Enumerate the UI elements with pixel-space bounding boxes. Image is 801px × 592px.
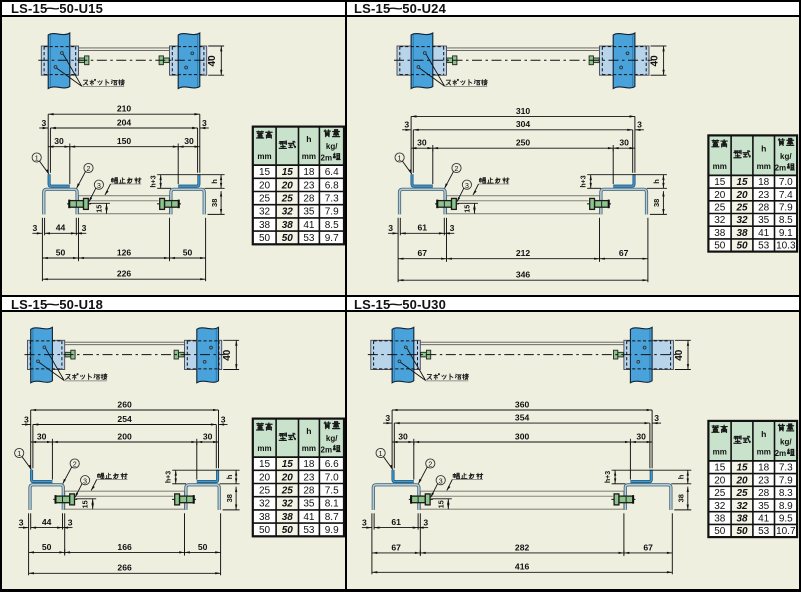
right channel bbox=[625, 485, 671, 510]
callout 1 bbox=[395, 153, 404, 162]
svg-text:7.9: 7.9 bbox=[325, 207, 339, 218]
svg-text:3: 3 bbox=[423, 517, 428, 527]
svg-text:2m: 2m bbox=[321, 153, 333, 162]
svg-text:8.5: 8.5 bbox=[779, 215, 793, 226]
svg-text:25: 25 bbox=[281, 194, 294, 205]
svg-text:9.5: 9.5 bbox=[779, 513, 793, 524]
habadome-zai label bbox=[98, 473, 104, 479]
right mounting plate bbox=[624, 340, 674, 369]
svg-text:2m: 2m bbox=[775, 449, 787, 458]
dim h and 38 bbox=[221, 469, 240, 471]
spot weld label leaders bbox=[63, 54, 81, 86]
right cover cap bbox=[630, 470, 651, 482]
plan-view width dim 40 bbox=[208, 45, 224, 47]
svg-text:h: h bbox=[652, 179, 661, 184]
svg-text:mm: mm bbox=[757, 448, 771, 457]
right support rail bbox=[613, 33, 635, 89]
callout 3 bbox=[436, 476, 445, 485]
dim 304 bbox=[412, 130, 414, 173]
svg-text:44: 44 bbox=[42, 517, 52, 527]
svg-text:15: 15 bbox=[436, 500, 445, 508]
callout 2 bbox=[84, 163, 93, 172]
dim 15 (brace leg) bbox=[458, 202, 479, 204]
spot weld label (supotto yousetsu) bbox=[446, 80, 451, 85]
habadome-zai label bbox=[479, 178, 485, 184]
svg-text:67: 67 bbox=[418, 248, 428, 258]
spot weld marks bbox=[404, 346, 407, 349]
svg-text:20: 20 bbox=[281, 180, 294, 191]
svg-text:3: 3 bbox=[97, 183, 101, 190]
svg-text:30: 30 bbox=[636, 431, 646, 441]
callout 1 bbox=[376, 448, 385, 457]
svg-text:3: 3 bbox=[654, 413, 659, 423]
svg-text:mm: mm bbox=[302, 444, 316, 453]
title bar row 1 bbox=[0, 2, 801, 16]
section bolts bbox=[435, 203, 459, 205]
dim 30 300 30 bbox=[413, 442, 415, 480]
svg-text:226: 226 bbox=[117, 269, 132, 279]
svg-text:38: 38 bbox=[736, 513, 748, 524]
svg-text:50: 50 bbox=[714, 241, 726, 252]
svg-text:32: 32 bbox=[259, 499, 271, 510]
svg-text:20: 20 bbox=[714, 475, 726, 486]
dim 254 bbox=[32, 425, 34, 469]
callout 3 bbox=[81, 476, 90, 485]
left mounting plate bbox=[371, 340, 421, 369]
svg-text:kg/: kg/ bbox=[780, 152, 792, 161]
svg-text:38: 38 bbox=[259, 512, 271, 523]
dim 260 overall bbox=[30, 410, 32, 468]
svg-text:38: 38 bbox=[736, 228, 748, 239]
svg-text:354: 354 bbox=[515, 413, 530, 423]
dim 15 (brace leg) bbox=[431, 498, 452, 500]
dim h and 38 bbox=[202, 174, 225, 176]
svg-text:28: 28 bbox=[758, 203, 770, 214]
svg-text:35: 35 bbox=[758, 501, 770, 512]
spot weld label leaders bbox=[407, 349, 425, 381]
svg-text:3: 3 bbox=[450, 223, 455, 233]
svg-text:28: 28 bbox=[758, 488, 770, 499]
svg-text:7.5: 7.5 bbox=[325, 486, 339, 497]
centre chain line bbox=[38, 59, 209, 61]
svg-text:50: 50 bbox=[56, 247, 66, 257]
dashed outline of plates bbox=[374, 340, 418, 342]
svg-text:254: 254 bbox=[117, 414, 132, 424]
callout 1 bbox=[15, 448, 24, 457]
bolt-on clamps (plan) bbox=[447, 58, 453, 63]
dim 346 overall width bbox=[398, 279, 648, 281]
svg-text:61: 61 bbox=[418, 223, 428, 233]
svg-text:200: 200 bbox=[117, 431, 132, 441]
svg-text:9.7: 9.7 bbox=[325, 233, 339, 244]
svg-text:40: 40 bbox=[649, 55, 660, 67]
svg-text:3: 3 bbox=[19, 517, 24, 527]
svg-text:38: 38 bbox=[714, 513, 726, 524]
spot weld label (supotto yousetsu) bbox=[83, 80, 88, 85]
spot weld label (supotto yousetsu) bbox=[427, 374, 432, 379]
svg-text:h+3: h+3 bbox=[605, 471, 612, 483]
svg-text:41: 41 bbox=[303, 512, 315, 523]
svg-text:30: 30 bbox=[203, 431, 213, 441]
svg-text:mm: mm bbox=[302, 152, 316, 161]
svg-text:mm: mm bbox=[713, 448, 727, 457]
svg-text:1: 1 bbox=[17, 451, 21, 458]
svg-text:40: 40 bbox=[674, 349, 685, 361]
brace angle (section) bbox=[65, 491, 185, 509]
svg-text:2: 2 bbox=[455, 166, 459, 173]
svg-text:15: 15 bbox=[736, 177, 748, 188]
svg-text:50: 50 bbox=[736, 526, 748, 537]
left channel (2) bbox=[400, 189, 446, 214]
svg-text:38: 38 bbox=[225, 494, 234, 502]
svg-text:346: 346 bbox=[516, 270, 531, 280]
dashed outline of plates bbox=[400, 46, 444, 48]
svg-text:282: 282 bbox=[515, 542, 530, 552]
left mounting plate bbox=[397, 46, 447, 75]
spot weld marks bbox=[423, 52, 426, 55]
svg-text:18: 18 bbox=[758, 463, 770, 474]
right channel bbox=[171, 189, 204, 214]
svg-text:3: 3 bbox=[83, 478, 87, 485]
svg-text:204: 204 bbox=[117, 117, 132, 127]
dim 67 212 67 bbox=[398, 258, 446, 260]
right support rail bbox=[197, 327, 219, 383]
svg-text:9.9: 9.9 bbox=[325, 525, 339, 536]
svg-text:mm: mm bbox=[257, 152, 271, 161]
svg-text:h: h bbox=[761, 429, 766, 439]
dim 50 126 50 bbox=[42, 257, 78, 259]
svg-text:25: 25 bbox=[259, 194, 271, 205]
frame lines bbox=[0, 0, 801, 2]
svg-text:50: 50 bbox=[736, 241, 748, 252]
bolt-on clamps (plan) bbox=[421, 352, 427, 357]
svg-text:360: 360 bbox=[515, 399, 530, 409]
svg-text:h: h bbox=[210, 179, 219, 184]
svg-text:3: 3 bbox=[42, 118, 47, 128]
callout 2 bbox=[70, 459, 79, 468]
svg-text:32: 32 bbox=[259, 207, 271, 218]
dim 210 overall bbox=[47, 114, 49, 173]
svg-text:3: 3 bbox=[404, 120, 409, 130]
extension lines bottom bbox=[371, 513, 373, 574]
svg-text:300: 300 bbox=[515, 431, 530, 441]
spec table bbox=[253, 127, 344, 166]
right support rail bbox=[178, 33, 200, 89]
dim h+3 bbox=[587, 174, 637, 176]
svg-text:38: 38 bbox=[259, 220, 271, 231]
callout 2 bbox=[452, 163, 461, 172]
svg-text:20: 20 bbox=[259, 180, 271, 191]
dim 360 overall bbox=[391, 410, 393, 468]
svg-text:61: 61 bbox=[391, 517, 401, 527]
svg-text:1: 1 bbox=[398, 156, 402, 163]
svg-text:mm: mm bbox=[713, 162, 727, 171]
svg-text:53: 53 bbox=[758, 241, 770, 252]
left mounting plate bbox=[28, 340, 65, 369]
svg-text:40: 40 bbox=[207, 55, 218, 67]
svg-text:166: 166 bbox=[117, 542, 132, 552]
svg-text:8.5: 8.5 bbox=[325, 220, 339, 231]
svg-text:15: 15 bbox=[463, 205, 472, 213]
svg-text:50: 50 bbox=[282, 525, 294, 536]
svg-text:30: 30 bbox=[417, 138, 427, 148]
extension lines bottom bbox=[28, 513, 30, 575]
svg-text:mm: mm bbox=[757, 162, 771, 171]
dim 226 overall width bbox=[42, 278, 205, 280]
svg-text:38: 38 bbox=[210, 199, 219, 207]
svg-text:67: 67 bbox=[619, 248, 629, 258]
svg-text:32: 32 bbox=[282, 499, 294, 510]
svg-text:50: 50 bbox=[259, 233, 271, 244]
svg-text:210: 210 bbox=[117, 104, 132, 114]
svg-text:kg/: kg/ bbox=[780, 437, 792, 446]
spec table bbox=[708, 135, 797, 175]
svg-text:41: 41 bbox=[758, 513, 770, 524]
svg-text:150: 150 bbox=[117, 136, 132, 146]
spot weld marks bbox=[43, 346, 46, 349]
svg-text:310: 310 bbox=[516, 106, 531, 116]
svg-text:7.9: 7.9 bbox=[779, 475, 793, 486]
extension lines bottom bbox=[397, 218, 399, 282]
svg-text:50: 50 bbox=[714, 526, 726, 537]
svg-text:1: 1 bbox=[35, 156, 39, 163]
svg-text:28: 28 bbox=[303, 194, 315, 205]
spot weld label leaders bbox=[426, 54, 444, 86]
habadome-zai label bbox=[453, 473, 459, 479]
extension lines bottom bbox=[41, 218, 43, 281]
svg-text:53: 53 bbox=[303, 525, 315, 536]
svg-text:20: 20 bbox=[281, 472, 294, 483]
svg-text:h+3: h+3 bbox=[581, 175, 588, 187]
svg-text:8.3: 8.3 bbox=[779, 488, 793, 499]
svg-text:50: 50 bbox=[282, 233, 294, 244]
left channel (2) bbox=[30, 485, 63, 510]
svg-text:32: 32 bbox=[714, 501, 726, 512]
svg-text:416: 416 bbox=[515, 562, 530, 572]
svg-text:2: 2 bbox=[428, 462, 432, 469]
bolt-on clamps (plan) bbox=[79, 58, 85, 63]
svg-text:32: 32 bbox=[736, 501, 748, 512]
svg-text:23: 23 bbox=[758, 190, 770, 201]
svg-text:38: 38 bbox=[282, 220, 294, 231]
section bolts bbox=[409, 498, 433, 500]
callout 2 bbox=[426, 459, 435, 468]
svg-text:15: 15 bbox=[95, 205, 104, 213]
svg-text:h: h bbox=[677, 474, 686, 479]
svg-text:3: 3 bbox=[385, 413, 390, 423]
dim 204 bbox=[49, 128, 51, 173]
svg-text:9.1: 9.1 bbox=[779, 228, 793, 239]
svg-text:35: 35 bbox=[303, 499, 315, 510]
svg-text:3: 3 bbox=[82, 223, 87, 233]
svg-text:2: 2 bbox=[73, 462, 77, 469]
svg-text:15: 15 bbox=[282, 459, 294, 470]
brace angle (section) bbox=[79, 196, 170, 214]
right channel bbox=[186, 485, 219, 510]
svg-text:30: 30 bbox=[184, 136, 194, 146]
spec table bbox=[708, 421, 797, 461]
spot weld marks bbox=[61, 52, 64, 55]
svg-text:7.3: 7.3 bbox=[325, 194, 339, 205]
plan-view width dim 40 bbox=[651, 45, 667, 47]
svg-text:260: 260 bbox=[117, 399, 132, 409]
brace angle (section) bbox=[447, 196, 600, 214]
spot weld label (supotto yousetsu) bbox=[66, 374, 71, 379]
svg-text:50: 50 bbox=[259, 525, 271, 536]
svg-text:15: 15 bbox=[259, 459, 271, 470]
svg-text:38: 38 bbox=[652, 199, 661, 207]
dashed outline of plates bbox=[44, 46, 76, 48]
svg-text:38: 38 bbox=[282, 512, 294, 523]
left cover cap (1) bbox=[32, 470, 53, 482]
svg-text:3: 3 bbox=[33, 223, 38, 233]
right support rail bbox=[630, 327, 652, 383]
svg-text:44: 44 bbox=[56, 223, 66, 233]
svg-text:18: 18 bbox=[758, 177, 770, 188]
svg-text:h+3: h+3 bbox=[151, 175, 158, 187]
right mounting plate bbox=[170, 46, 207, 75]
left cover cap (1) bbox=[393, 470, 414, 482]
svg-text:67: 67 bbox=[391, 542, 401, 552]
left support rail bbox=[31, 327, 53, 383]
brace bar edge-on bbox=[65, 341, 185, 343]
dim 30 200 30 bbox=[51, 442, 53, 480]
section bolts bbox=[53, 498, 77, 500]
svg-text:3: 3 bbox=[388, 223, 393, 233]
svg-text:h: h bbox=[306, 426, 311, 436]
brace bar edge-on bbox=[447, 47, 600, 49]
svg-text:38: 38 bbox=[677, 494, 686, 502]
svg-text:2m: 2m bbox=[775, 164, 787, 173]
svg-text:266: 266 bbox=[117, 563, 132, 573]
svg-text:50: 50 bbox=[198, 542, 208, 552]
svg-text:7.9: 7.9 bbox=[779, 203, 793, 214]
left support rail bbox=[48, 33, 70, 89]
dim 15 (brace leg) bbox=[76, 498, 97, 500]
dim h and 38 bbox=[654, 469, 691, 471]
svg-text:38: 38 bbox=[714, 228, 726, 239]
svg-text:41: 41 bbox=[758, 228, 770, 239]
svg-text:18: 18 bbox=[303, 459, 315, 470]
callout 3 bbox=[462, 180, 471, 189]
svg-text:3: 3 bbox=[362, 517, 367, 527]
svg-text:15: 15 bbox=[81, 500, 90, 508]
svg-text:30: 30 bbox=[37, 431, 47, 441]
titles bbox=[11, 1, 103, 16]
left cover cap (1) bbox=[49, 174, 70, 186]
svg-text:3: 3 bbox=[221, 414, 226, 424]
svg-text:6.4: 6.4 bbox=[325, 167, 339, 178]
dim h and 38 bbox=[637, 174, 667, 176]
habadome-zai label bbox=[111, 178, 117, 184]
right mounting plate bbox=[185, 340, 222, 369]
svg-text:h+3: h+3 bbox=[166, 471, 173, 483]
left cover cap (1) bbox=[412, 174, 433, 186]
right cover cap bbox=[178, 174, 199, 186]
dim 50 166 50 bbox=[29, 551, 65, 553]
svg-text:6.8: 6.8 bbox=[325, 180, 339, 191]
brace bar edge-on bbox=[420, 341, 624, 343]
centre chain line bbox=[25, 354, 225, 356]
svg-text:30: 30 bbox=[54, 136, 64, 146]
svg-text:7.3: 7.3 bbox=[779, 463, 793, 474]
svg-text:23: 23 bbox=[303, 180, 315, 191]
svg-text:18: 18 bbox=[303, 167, 315, 178]
dim h+3 bbox=[172, 469, 220, 471]
dim 30 150 30 bbox=[69, 147, 71, 184]
svg-text:7.0: 7.0 bbox=[325, 472, 339, 483]
svg-text:h: h bbox=[761, 143, 766, 153]
svg-text:53: 53 bbox=[303, 233, 315, 244]
svg-text:kg/: kg/ bbox=[326, 434, 338, 443]
svg-text:25: 25 bbox=[735, 488, 748, 499]
svg-text:mm: mm bbox=[257, 444, 271, 453]
plan-view width dim 40 bbox=[223, 339, 239, 341]
svg-text:10.3: 10.3 bbox=[776, 241, 796, 252]
svg-text:30: 30 bbox=[398, 431, 408, 441]
svg-text:30: 30 bbox=[619, 138, 629, 148]
left channel (2) bbox=[373, 485, 419, 510]
svg-text:h: h bbox=[306, 134, 311, 144]
svg-text:20: 20 bbox=[259, 472, 271, 483]
svg-text:304: 304 bbox=[516, 119, 531, 129]
right mounting plate bbox=[600, 46, 650, 75]
dim 266 overall width bbox=[29, 572, 221, 574]
svg-text:20: 20 bbox=[714, 190, 726, 201]
section bolts bbox=[67, 203, 91, 205]
svg-text:15: 15 bbox=[736, 463, 748, 474]
svg-text:7.4: 7.4 bbox=[779, 190, 793, 201]
svg-text:53: 53 bbox=[758, 526, 770, 537]
centre chain line bbox=[368, 354, 677, 356]
svg-text:32: 32 bbox=[282, 207, 294, 218]
svg-text:126: 126 bbox=[117, 247, 132, 257]
svg-text:35: 35 bbox=[758, 215, 770, 226]
svg-text:2: 2 bbox=[87, 166, 91, 173]
right cover cap bbox=[197, 470, 218, 482]
svg-text:7.0: 7.0 bbox=[779, 177, 793, 188]
svg-text:15: 15 bbox=[259, 167, 271, 178]
svg-text:35: 35 bbox=[303, 207, 315, 218]
svg-text:25: 25 bbox=[735, 203, 748, 214]
svg-text:23: 23 bbox=[758, 475, 770, 486]
brace angle (section) bbox=[420, 491, 624, 509]
centre chain line bbox=[394, 59, 652, 61]
svg-text:15: 15 bbox=[714, 177, 726, 188]
brace bar edge-on bbox=[79, 47, 170, 49]
plan-view width dim 40 bbox=[675, 339, 691, 341]
svg-text:2m: 2m bbox=[321, 445, 333, 454]
svg-text:3: 3 bbox=[637, 120, 642, 130]
svg-text:10.7: 10.7 bbox=[776, 526, 796, 537]
left support rail bbox=[411, 33, 433, 89]
svg-text:8.9: 8.9 bbox=[779, 501, 793, 512]
right channel bbox=[601, 189, 647, 214]
svg-text:kg/: kg/ bbox=[326, 142, 338, 151]
svg-text:25: 25 bbox=[714, 488, 726, 499]
svg-text:3: 3 bbox=[202, 118, 207, 128]
svg-text:15: 15 bbox=[282, 167, 294, 178]
svg-text:41: 41 bbox=[303, 220, 315, 231]
svg-text:8.1: 8.1 bbox=[325, 499, 339, 510]
svg-text:20: 20 bbox=[735, 475, 748, 486]
dim h+3 bbox=[612, 469, 655, 471]
svg-text:3: 3 bbox=[68, 517, 73, 527]
svg-text:50: 50 bbox=[183, 247, 193, 257]
dim 416 overall width bbox=[372, 571, 672, 573]
svg-text:32: 32 bbox=[736, 215, 748, 226]
svg-text:3: 3 bbox=[465, 183, 469, 190]
